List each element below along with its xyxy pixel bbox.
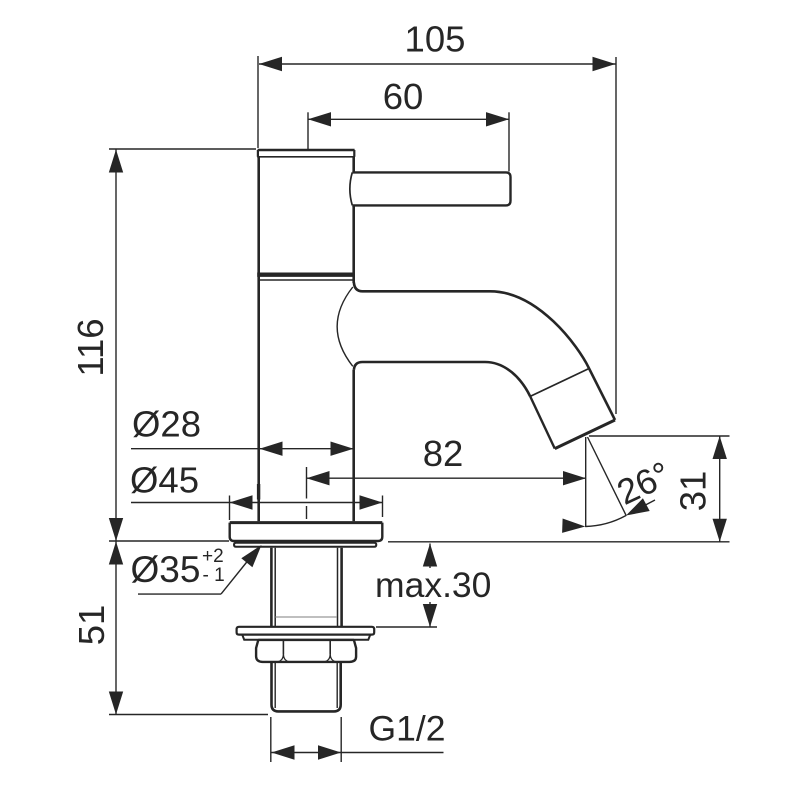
svg-text:60: 60 xyxy=(383,76,424,117)
svg-text:31: 31 xyxy=(673,471,714,512)
svg-text:82: 82 xyxy=(423,433,464,474)
svg-text:Ø35: Ø35 xyxy=(131,549,201,590)
svg-text:116: 116 xyxy=(70,318,111,376)
svg-text:G1/2: G1/2 xyxy=(369,709,446,749)
svg-text:+2: +2 xyxy=(202,546,224,567)
svg-text:105: 105 xyxy=(405,19,466,60)
svg-text:Ø45: Ø45 xyxy=(130,459,199,500)
svg-text:max.30: max.30 xyxy=(375,565,491,605)
svg-text:- 1: - 1 xyxy=(203,565,225,586)
svg-text:Ø28: Ø28 xyxy=(132,404,201,445)
svg-text:51: 51 xyxy=(71,605,112,646)
